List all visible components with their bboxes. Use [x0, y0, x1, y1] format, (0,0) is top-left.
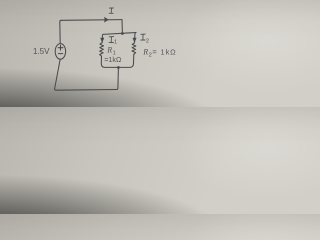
svg-text:2: 2: [149, 53, 152, 59]
wire bottom vertical: [116, 68, 118, 90]
wire battery top to top-left corner: [60, 20, 61, 43]
svg-text:1.5V: 1.5V: [33, 47, 50, 56]
wire bottom-left vertical up to battery: [55, 60, 61, 89]
current arrow I2: [133, 38, 136, 41]
svg-text:=1kΩ: =1kΩ: [104, 55, 122, 64]
resistor R1: [100, 43, 104, 57]
current arrow I1: [101, 38, 104, 41]
svg-text:1: 1: [114, 40, 117, 46]
svg-text:= 1kΩ: = 1kΩ: [152, 48, 176, 57]
wire top horizontal: [61, 19, 122, 22]
svg-text:R: R: [142, 48, 148, 57]
wire right branch upper: [135, 33, 137, 43]
label I1: [109, 37, 114, 43]
wire right branch lower + merge left: [118, 54, 133, 67]
svg-text:2: 2: [146, 38, 149, 44]
wire top-right vertical down to node: [121, 20, 123, 34]
node bottom junction: [117, 66, 120, 69]
label I (top current): [109, 8, 113, 13]
resistor R2: [132, 43, 136, 55]
node top junction: [121, 32, 124, 35]
svg-text:R: R: [106, 46, 112, 55]
wire bottom horizontal: [55, 89, 117, 90]
wire junction bar: [103, 33, 136, 35]
wire left branch upper: [101, 34, 104, 42]
battery V1 (1.5V source): [55, 44, 65, 60]
label I2: [141, 34, 146, 40]
current arrow I: [105, 17, 109, 22]
wire left branch lower + merge right: [101, 56, 118, 67]
